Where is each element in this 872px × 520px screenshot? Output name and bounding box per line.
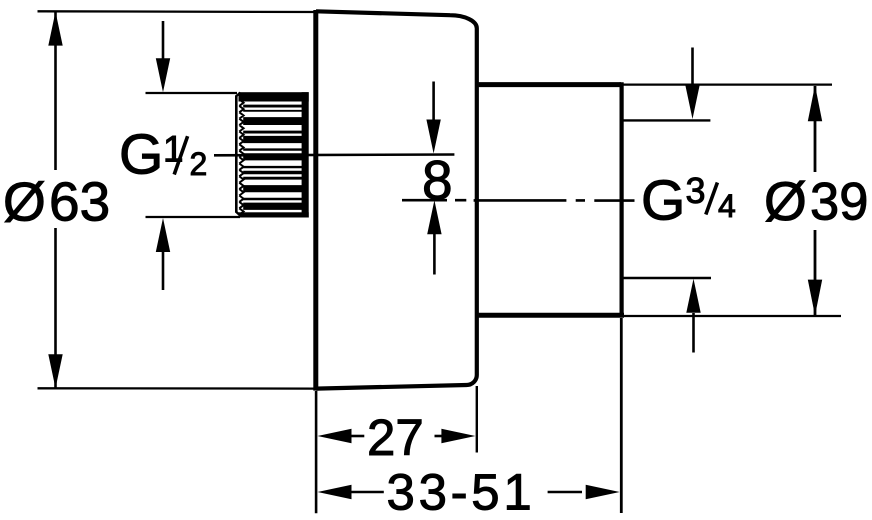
27 right extension line — [476, 386, 478, 453]
knurl chamfer bottom-left — [236, 212, 241, 216]
33-51 left extension line — [315, 391, 318, 513]
svg-text:G: G — [641, 168, 685, 232]
Ø39 top extension line — [623, 83, 832, 85]
Ø63 dimension line lower part — [54, 228, 57, 388]
Ø63 top extension line — [38, 10, 318, 13]
G3/4 lower extension line — [621, 277, 711, 279]
G1/2 fraction slash — [174, 136, 187, 174]
knurl top arrow line — [162, 21, 165, 60]
knurl chamfer top-left — [236, 93, 241, 97]
Ø63 dimension line upper part — [54, 12, 57, 170]
svg-text:63: 63 — [49, 171, 110, 233]
svg-text:1: 1 — [163, 129, 184, 170]
thread profile serration (left edge) — [239, 100, 243, 215]
27 dimension right arrowhead — [441, 429, 475, 443]
G3/4 upper arrow line — [691, 48, 694, 86]
thread crest/root lines — [243, 105, 303, 108]
body left edge — [313, 10, 318, 391]
8-dim lower arrow line — [433, 234, 436, 275]
33-51 dimension left arrowhead — [318, 485, 352, 499]
Ø63 arrow up — [48, 12, 62, 46]
G1/2 leader / 8-dim upper extension line — [214, 153, 454, 156]
33-51 right extension line — [620, 318, 623, 513]
knurl bottom extension line — [146, 216, 241, 218]
33-51 dimension right line — [548, 491, 582, 494]
knurl outline: bottom band — [239, 212, 309, 217]
knurl top arrowhead (down) — [156, 58, 170, 92]
svg-text:Ø: Ø — [764, 170, 807, 232]
centerline (dash-dot) — [402, 199, 635, 202]
outlet cylinder top edge — [479, 82, 621, 87]
33-51 dimension right arrowhead — [586, 485, 620, 499]
knurl outline: right band — [302, 92, 309, 217]
knurl outline: left edge — [235, 96, 238, 213]
svg-text:33-51: 33-51 — [387, 463, 536, 520]
27 dimension left line — [350, 435, 364, 438]
svg-text:8: 8 — [422, 149, 453, 211]
svg-text:Ø: Ø — [3, 171, 46, 233]
G3/4 lower arrow line — [692, 313, 695, 353]
G3/4 fraction slash — [706, 183, 718, 215]
8-dim lower arrowhead (up) — [427, 200, 441, 234]
svg-text:39: 39 — [810, 172, 868, 231]
svg-text:27: 27 — [367, 409, 424, 466]
svg-text:G: G — [119, 123, 163, 187]
outlet cylinder bottom edge — [479, 313, 624, 318]
knurl outline: top band — [239, 92, 309, 101]
svg-text:3: 3 — [686, 170, 706, 211]
knurl bottom arrow line — [162, 252, 165, 290]
27 dimension right line — [435, 435, 448, 438]
knurl top extension line — [146, 92, 238, 94]
8-dim upper arrowhead (down) — [426, 120, 440, 154]
svg-text:2: 2 — [190, 146, 208, 182]
Ø63 arrow down — [48, 354, 62, 388]
Ø39 arrow up — [808, 85, 822, 121]
Ø39 bottom extension line — [624, 315, 841, 317]
Ø39 arrow down — [808, 280, 822, 316]
svg-text:4: 4 — [718, 188, 736, 224]
G3/4 upper arrowhead (down) — [685, 85, 699, 119]
Ø39 dimension line lower part — [814, 230, 817, 315]
G3/4 lower arrowhead (up) — [686, 279, 700, 313]
main body outline (27mm hexagon body) — [316, 11, 477, 388]
33-51 dimension left line — [350, 491, 384, 494]
8-dim upper arrow line — [432, 82, 435, 121]
27 dimension left arrowhead — [318, 429, 352, 443]
G3/4 upper extension line — [621, 119, 710, 121]
outlet cylinder right edge — [619, 82, 623, 317]
knurl bottom arrowhead (up) — [156, 218, 170, 252]
Ø63 bottom extension line — [38, 387, 316, 390]
Ø39 dimension line upper part — [814, 86, 817, 172]
